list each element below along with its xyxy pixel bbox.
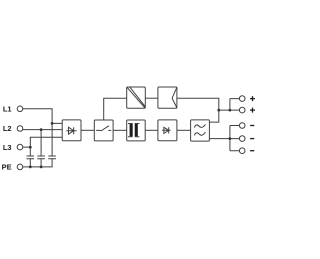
regulator U3 box (top row, chevron) [158,87,177,108]
filter U4 box (output filter) [191,120,210,141]
capacitor C1 [27,156,35,159]
wire output diode to filter [177,129,191,131]
terminal L2 [17,126,23,132]
output diode D1 box [158,120,177,141]
node junction minus bus [229,137,232,140]
terminal minus 1 [239,123,245,129]
wire minus bus [230,126,240,151]
node junction L1 [51,122,54,125]
wire transformer to output diode [145,129,158,131]
wire L2 drop to capacitor C2 [40,130,42,156]
transformer T1 box [127,120,146,141]
node plus 2 sign [250,108,255,113]
wire trunk to plus feed [219,109,240,111]
terminal minus 2 [239,136,245,142]
converter U2 diagonal symbol [127,87,145,108]
terminal PE [17,164,23,170]
wire rectifier to switch [81,129,94,131]
svg-text:L2: L2 [3,124,12,133]
terminal L1 [17,106,23,112]
wire capacitor C1 to PE [29,159,31,167]
filter U4 sine symbol lower [194,132,205,135]
capacitor C3 [48,156,56,159]
wire regulator to output trunk [177,98,219,122]
converter U2 box (top row, double diagonal) [127,87,146,108]
wire L3 to rectifier [23,137,63,147]
wire plus bus [230,99,240,111]
capacitor C2 [37,156,45,159]
wire L1 to rectifier [23,109,63,124]
svg-text:PE: PE [2,163,12,172]
wire capacitor C2 to PE [40,159,42,167]
node minus 3 sign [250,150,254,152]
terminal L3 [17,144,23,150]
regulator U3 chevron symbol [172,87,177,108]
svg-text:L3: L3 [3,143,12,152]
node junction PE C2 [40,166,43,169]
terminal plus 1 [239,96,245,102]
svg-text:L1: L1 [3,104,12,113]
node minus 2 sign [250,138,254,140]
terminal minus 3 [239,148,245,154]
rectifier U1 box [62,120,81,141]
node junction PE C1 [29,166,32,169]
wire converter to regulator [145,97,158,99]
wire filter to minus bus [209,138,239,140]
output diode D1 symbol [162,127,170,133]
transformer T1 primary winding [130,124,133,137]
node junction plus bus [229,109,232,112]
rectifier U1 diode symbol [66,127,76,134]
node junction L2 [40,128,43,131]
node plus 1 sign [250,96,255,101]
node minus 1 sign [250,125,254,127]
terminal plus 2 [239,107,245,113]
filter U4 sine symbol upper [194,124,205,127]
wire L1 drop to capacitor C3 [51,123,53,156]
switch S1 box [94,120,113,141]
wire L2 to rectifier [23,129,63,131]
node junction L3 [29,146,32,149]
node junction trunk [217,109,220,112]
wire switch to PFC converter [104,98,127,120]
wire switch to transformer [113,129,127,131]
wire L3 drop to capacitor C1 [29,147,31,156]
switch S1 contact symbol [96,126,111,131]
wire PE bus [23,159,52,167]
transformer T1 secondary winding [135,124,138,137]
